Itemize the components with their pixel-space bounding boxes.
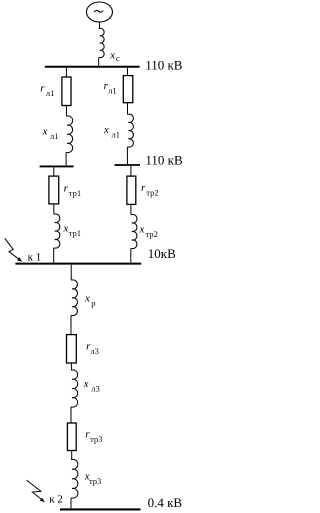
svg-text:к 1: к 1	[28, 252, 42, 264]
svg-text:110 кВ: 110 кВ	[145, 58, 183, 73]
svg-text:0.4 кВ: 0.4 кВ	[148, 495, 183, 510]
svg-text:к 2: к 2	[49, 494, 63, 506]
svg-text:110 кВ: 110 кВ	[145, 153, 183, 168]
svg-text:10кВ: 10кВ	[148, 246, 176, 261]
